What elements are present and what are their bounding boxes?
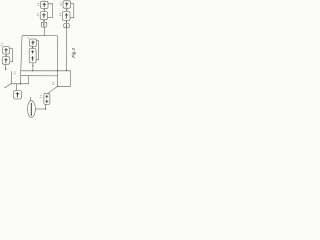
block B3 bbox=[64, 24, 69, 28]
block C2 bbox=[29, 49, 36, 63]
wire ellipse top bbox=[29, 97, 31, 101]
label 30 (left of right loop) bbox=[52, 82, 54, 84]
symbol in A3 bbox=[43, 23, 45, 26]
svg-text:Fig.3: Fig.3 bbox=[71, 48, 76, 58]
wire C2 down to inner bus bbox=[32, 63, 34, 71]
right loop wire (down, left) bbox=[58, 71, 71, 87]
junction dot loop corner bbox=[57, 86, 58, 87]
wire into block M bbox=[16, 84, 18, 91]
wire D down to junction bbox=[45, 105, 47, 109]
wire B1-B2 connector bbox=[66, 8, 68, 11]
label 20 (left of A1) bbox=[37, 3, 39, 5]
diagonal lead to block D bbox=[48, 86, 58, 93]
wire L1-L2 connector bbox=[5, 54, 7, 56]
label 23 (left of B2) bbox=[59, 13, 61, 15]
arrowhead A2-A3 bbox=[43, 20, 44, 21]
symbol in B3 bbox=[65, 25, 67, 28]
wire bracket A (A1 right to A2 right) bbox=[48, 4, 53, 18]
wire C1-C2 connector bbox=[32, 46, 34, 48]
wire bracket B (B1 right to B2 right) bbox=[70, 4, 74, 18]
label 12 (right of node wire) bbox=[14, 72, 16, 74]
oscillator ellipse 14 bbox=[27, 101, 35, 118]
symbol in A1 bbox=[43, 3, 46, 7]
block L1 bbox=[3, 47, 10, 54]
wire L2 down with arrow bbox=[5, 64, 7, 70]
block D bbox=[44, 93, 50, 104]
wire A2-A3 connector bbox=[43, 20, 45, 23]
block A1 bbox=[41, 1, 48, 8]
main dashed enclosure box 12 bbox=[21, 36, 58, 76]
wire bracket L (L1 right to L2 right) bbox=[10, 49, 13, 62]
diagonal lead bottom-left bbox=[4, 83, 11, 88]
right edge extension below enclosure bbox=[57, 76, 59, 87]
lower horizontal bus bbox=[12, 83, 29, 85]
arrowhead B2-B3 bbox=[66, 22, 67, 23]
Fig. 3 caption (rotated) bbox=[71, 48, 76, 58]
symbol in L2 bbox=[5, 58, 8, 62]
arrowhead L2 down bbox=[5, 69, 7, 71]
junction dot D bbox=[45, 108, 46, 109]
label 16 (left of D) bbox=[40, 95, 42, 97]
wire B2-B3 connector bbox=[66, 21, 68, 24]
junction dot B-wire-bus bbox=[66, 70, 67, 71]
label 10 (above-left of L1) bbox=[1, 43, 3, 46]
wire junction to ellipse bbox=[35, 108, 45, 110]
junction dot lower bus bbox=[20, 83, 21, 84]
junction dot bus-right edge bbox=[57, 70, 58, 71]
arrowhead junction B bbox=[66, 9, 67, 10]
symbol in L1 bbox=[5, 48, 8, 52]
symbol in B2 bbox=[65, 14, 68, 19]
block A2 bbox=[40, 12, 47, 20]
block B2 bbox=[63, 12, 70, 21]
block L2 bbox=[2, 57, 10, 65]
wire stub down from lower bus bbox=[27, 76, 29, 84]
inner horizontal bus bbox=[21, 70, 71, 72]
symbol in C2 bbox=[32, 51, 34, 61]
label 25 (above-left of C1) bbox=[28, 37, 30, 40]
arrowhead C2 down bbox=[32, 65, 34, 67]
arrowhead junction A bbox=[44, 9, 45, 10]
wire bracket C (C1 right to C2 right) bbox=[36, 41, 38, 60]
arrowhead L1-L2 bbox=[5, 55, 6, 56]
arrowhead C1-C2 bbox=[32, 47, 33, 48]
junction dot C2-bus bbox=[32, 70, 33, 71]
symbol in B1 bbox=[66, 3, 69, 7]
rotated text in ellipse bbox=[30, 103, 32, 115]
symbol in M bbox=[16, 92, 19, 97]
symbol in C1 bbox=[32, 41, 35, 45]
wire node 11 vertical bbox=[11, 72, 13, 84]
symbol in D bbox=[46, 95, 48, 102]
block C1 (inside enclosure) bbox=[30, 39, 37, 46]
symbol in A2 bbox=[43, 13, 46, 17]
block M bbox=[14, 91, 22, 99]
wire B3 down to lower bus bbox=[65, 28, 67, 71]
label 21 (left of A2) bbox=[37, 13, 39, 15]
label 22 (left of B1) bbox=[60, 3, 62, 5]
wire A1-A2 connector bbox=[43, 9, 45, 12]
enclosure bottom-left wire down bbox=[20, 76, 22, 84]
block A3 bbox=[41, 22, 47, 27]
wire A3 to main box top bbox=[43, 27, 45, 35]
block B1 bbox=[63, 1, 71, 8]
